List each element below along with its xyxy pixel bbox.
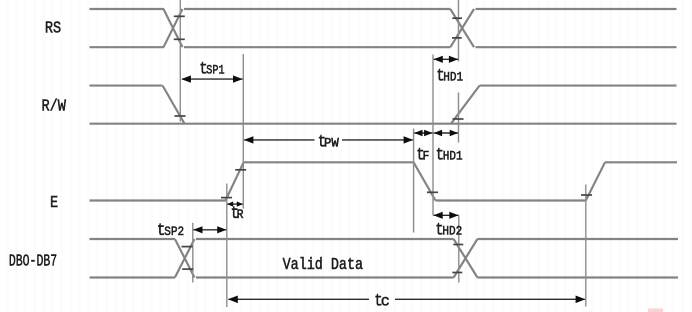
wire DB high rail right — [477, 238, 678, 240]
node tick E rise1 bottom — [221, 197, 232, 199]
wire RS low rail left — [90, 46, 165, 48]
node label tc — [374, 291, 390, 311]
svg-text:PW: PW — [324, 135, 339, 150]
node tick DB X1 lower — [182, 268, 193, 270]
wire R/W rising edge — [451, 86, 480, 124]
node tF left arrowhead — [414, 130, 422, 137]
svg-text:F: F — [423, 149, 430, 164]
node tick RS X1 upper — [174, 15, 185, 17]
node label tSP2 — [157, 221, 184, 241]
wire tR arrow shaft — [228, 203, 243, 205]
node tHD1 top right arrowhead — [449, 56, 458, 63]
wire RS high rail right — [476, 8, 677, 10]
node tR right arrowhead — [237, 201, 243, 206]
node RS crossover 2 — [450, 9, 474, 47]
node tick R/W fall — [175, 115, 186, 117]
dimension arrows — [182, 59, 585, 299]
node RS crossover 1 — [164, 9, 183, 47]
svg-text:RS: RS — [45, 18, 61, 38]
svg-text:HD1: HD1 — [443, 70, 463, 85]
wire tPW arrow shaft — [244, 139, 413, 141]
node tSP2 right arrowhead — [217, 226, 226, 233]
node tHD1 top left arrowhead — [434, 56, 443, 63]
watermark remnant bottom right — [648, 309, 663, 312]
node label tPW — [316, 131, 342, 152]
wire RS low rail right — [476, 46, 677, 48]
wire RS high rail left — [90, 8, 165, 10]
node label tHD2 — [435, 220, 462, 240]
node tHD1 bottom right arrowhead — [450, 130, 458, 137]
wire R/W falling edge — [163, 86, 185, 124]
wire DB low rail left — [90, 276, 175, 278]
node tHD2 left arrowhead — [433, 212, 442, 219]
svg-text:R/W: R/W — [42, 96, 67, 116]
node label tF — [416, 145, 429, 165]
node tick E rise2 — [581, 194, 592, 196]
wire DB high rail left — [90, 238, 175, 240]
wire R/W low rail — [90, 123, 677, 125]
wire tSP1 arrow shaft — [182, 78, 243, 80]
svg-text:SP1: SP1 — [206, 63, 224, 77]
wire tHD1 top arrow shaft — [434, 58, 458, 60]
node label tSP1 — [199, 59, 224, 79]
node ext line x459 lower (tHD2 right / DB X2) — [458, 215, 460, 282]
svg-text:E: E — [50, 192, 58, 212]
wire tHD1 bottom arrow shaft — [434, 132, 458, 134]
level ticks on transitions — [174, 16, 592, 272]
node ext line x433 (tF right / tHD1 left / tHD2 left) — [432, 55, 434, 216]
svg-text:HD1: HD1 — [443, 149, 463, 164]
node ext line x193 (tSP2 left / DB X1) — [192, 223, 194, 283]
node tPW right arrowhead — [404, 136, 414, 143]
svg-text:R: R — [237, 208, 244, 223]
svg-text:SP2: SP2 — [164, 224, 184, 239]
node tick R/W rise — [453, 118, 464, 120]
wire tF arrow shaft — [414, 132, 432, 134]
svg-text:DBO-DB7: DBO-DB7 — [9, 253, 57, 272]
svg-text:Valid Data: Valid Data — [283, 255, 363, 275]
node ext line x180 (RS X1 / tSP1 left) — [179, 0, 181, 122]
wire R/W high rail right — [480, 85, 677, 87]
wire RS low rail mid — [184, 46, 450, 48]
node tc right arrowhead — [576, 296, 586, 304]
node tick RS X2 lower — [452, 37, 462, 39]
wire DB low rail right — [477, 276, 678, 278]
node ext line x413 (tPW right / tF left) — [413, 129, 415, 233]
wire E low rail mid — [436, 199, 586, 201]
wire E falling edge — [414, 162, 436, 200]
node ext line x458 upper (RS X2 / tHD1 right) — [458, 0, 460, 62]
node tick DB X1 upper — [182, 246, 193, 248]
wire DB high rail mid — [196, 238, 454, 240]
node label tR — [231, 204, 244, 224]
node tick DB X2 lower — [452, 272, 462, 274]
svg-text:HD2: HD2 — [442, 224, 462, 239]
node ext line x243 (tSP1 right / tPW left / tR right) — [242, 54, 244, 209]
node tick RS X2 upper — [452, 17, 462, 19]
node tick DB X2 upper — [453, 244, 463, 246]
node tF right arrowhead — [424, 130, 432, 137]
wire E rising edge 2 — [586, 162, 605, 200]
wire DB low rail mid — [196, 276, 454, 278]
node tSP2 left arrowhead — [193, 226, 202, 233]
wire E low rail left — [90, 199, 227, 201]
wire E high rail right — [605, 161, 677, 163]
node ext line x227 (tR left / tSP2 right / tc left) — [226, 184, 228, 308]
node label tHD1 top — [436, 66, 463, 86]
dimension extension verticals — [180, 0, 586, 307]
node tick E rise1 top — [235, 169, 246, 171]
node tHD1 bottom left arrowhead — [434, 130, 442, 137]
node label tHD1 bottom — [436, 145, 463, 165]
wire tHD2 arrow shaft — [434, 214, 459, 216]
node DB crossover 2 — [454, 239, 478, 278]
node DB crossover 1 — [175, 239, 195, 278]
svg-text:c: c — [381, 292, 390, 310]
node ext line x586 (tc right) — [585, 185, 587, 307]
node tSP1 right arrowhead — [233, 75, 243, 82]
node tR left arrowhead — [227, 201, 233, 206]
node tc left arrowhead — [228, 296, 238, 304]
wire R/W high rail left — [90, 85, 163, 87]
node tSP1 left arrowhead — [181, 75, 191, 82]
wire E high rail mid — [244, 161, 414, 163]
node ext line x458 mid (below tHD1 text) — [458, 93, 460, 143]
node tHD2 right arrowhead — [449, 212, 458, 219]
wire tc arrow shaft — [228, 298, 584, 300]
node tPW left arrowhead — [244, 136, 254, 143]
wire tSP2 arrow shaft — [194, 229, 227, 231]
wire RS high rail mid — [184, 8, 450, 10]
wire E rising edge 1 — [226, 162, 244, 200]
node tick E fall — [427, 191, 438, 193]
node tick RS X1 lower — [174, 38, 185, 40]
